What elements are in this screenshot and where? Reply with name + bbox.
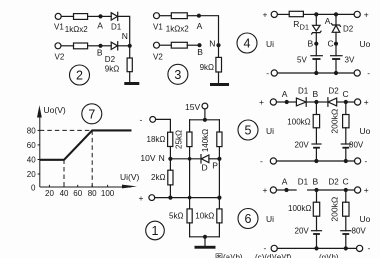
node (top rail): [203, 118, 207, 122]
battery 5V: [311, 55, 322, 57]
svg-text:D2: D2: [343, 25, 354, 34]
wire: [315, 148, 317, 161]
terminal - (bottom-right): [355, 158, 361, 164]
svg-text:A: A: [282, 177, 288, 187]
node B: [314, 42, 318, 46]
svg-text:C: C: [343, 177, 349, 187]
resistor 9kΩ: [127, 58, 132, 72]
terminal - (bottom-left): [271, 70, 277, 76]
node C: [344, 188, 348, 192]
x tick 100: [107, 185, 109, 187]
terminal + (top-right): [355, 187, 361, 193]
resistor 1kΩ (V2 branch): [171, 42, 187, 48]
circled 6: [238, 209, 258, 229]
svg-text:B: B: [313, 89, 319, 99]
wire: [61, 45, 74, 47]
caption fragments at bottom edge: [215, 253, 339, 258]
wire: [335, 32, 337, 43]
ground: [195, 246, 216, 249]
svg-text:Uo(V): Uo(V): [44, 105, 66, 115]
resistor 1kΩ (V2 branch): [74, 43, 88, 49]
resistor 100kΩ: [313, 115, 319, 128]
svg-text:A: A: [197, 21, 203, 31]
wire: [345, 234, 347, 248]
node (bottom of 80V): [344, 159, 348, 163]
y tick 80: [38, 129, 40, 131]
svg-text:-: -: [266, 68, 269, 78]
node A: [98, 14, 102, 18]
wire: [218, 223, 220, 237]
svg-text:V2: V2: [153, 53, 163, 62]
resistor 18kΩ: [168, 132, 173, 146]
svg-text:(c)(d)(e)(f): (c)(d)(e)(f): [255, 253, 292, 258]
svg-text:6: 6: [245, 212, 252, 226]
svg-text:20V: 20V: [295, 227, 310, 236]
y axis: [39, 112, 41, 187]
svg-text:+: +: [263, 185, 268, 195]
wire: [129, 46, 131, 58]
node N: [216, 43, 220, 47]
node B: [98, 44, 102, 48]
svg-text:D1: D1: [300, 23, 310, 32]
terminal V2: [154, 42, 160, 48]
svg-text:-: -: [140, 115, 143, 125]
terminal + (input bottom): [149, 195, 155, 201]
svg-text:-: -: [264, 243, 267, 253]
svg-text:1kΩx2: 1kΩx2: [166, 25, 189, 34]
svg-text:60: 60: [73, 189, 82, 198]
wire: [337, 101, 346, 103]
wire: [204, 109, 206, 120]
wire: [218, 45, 220, 57]
svg-text:B: B: [308, 39, 314, 49]
battery 80V: [341, 143, 350, 145]
resistor 140kΩ: [217, 132, 222, 147]
wire: [277, 189, 287, 191]
svg-text:5V: 5V: [297, 56, 307, 65]
wire: [88, 45, 101, 47]
terminal - (bottom-left): [270, 158, 276, 164]
svg-text:C: C: [328, 39, 334, 49]
x tick 80: [91, 185, 93, 187]
svg-text:D2: D2: [105, 55, 116, 64]
battery 3V: [331, 55, 342, 57]
zener diode D1: [313, 25, 321, 31]
svg-text:+: +: [139, 193, 144, 203]
y tick 60: [38, 144, 40, 146]
circled 7: [82, 104, 102, 124]
svg-text:B: B: [97, 48, 103, 58]
wire (+ row): [155, 197, 220, 199]
wire: [277, 101, 287, 103]
svg-text:9kΩ: 9kΩ: [105, 65, 119, 74]
terminal + (top-right): [355, 99, 361, 105]
svg-text:Uo: Uo: [360, 126, 371, 136]
node B: [314, 100, 318, 104]
svg-text:10V: 10V: [140, 153, 155, 163]
svg-text:100kΩ: 100kΩ: [288, 204, 311, 213]
wire: [218, 72, 220, 83]
wire: [218, 120, 220, 132]
node C: [344, 100, 348, 104]
resistor 25kΩ: [187, 132, 192, 147]
wire: [345, 102, 347, 115]
node A: [284, 188, 288, 192]
circled 5: [238, 120, 258, 140]
wire: [160, 15, 172, 17]
node (2k joins + row): [168, 196, 172, 200]
x tick 40: [63, 185, 65, 187]
circled 2: [70, 65, 90, 85]
resistor 2kΩ: [168, 170, 173, 185]
svg-text:A: A: [97, 20, 103, 30]
svg-text:A: A: [282, 89, 288, 99]
wire: [189, 223, 191, 237]
wire: [187, 15, 199, 17]
svg-text:140kΩ: 140kΩ: [201, 129, 210, 152]
node (top of D1): [314, 12, 318, 16]
svg-text:B: B: [313, 177, 319, 187]
wire: [315, 14, 317, 25]
node (bottom of 5V): [314, 71, 318, 75]
wire: [209, 158, 220, 160]
svg-text:80V: 80V: [349, 140, 364, 149]
wire: [335, 14, 337, 25]
node (bottom of 20V): [314, 246, 318, 250]
svg-text:2: 2: [76, 69, 83, 83]
svg-text:R: R: [293, 19, 299, 29]
svg-text:Ui: Ui: [266, 126, 274, 136]
wire: [306, 101, 316, 103]
svg-text:9kΩ: 9kΩ: [200, 63, 214, 72]
node C: [334, 42, 338, 46]
wire: [101, 15, 112, 17]
svg-text:Ui: Ui: [266, 214, 274, 224]
wire: [156, 119, 171, 132]
svg-text:100kΩ: 100kΩ: [287, 118, 310, 127]
wire: [315, 33, 317, 44]
svg-text:200kΩ: 200kΩ: [330, 197, 340, 222]
wire: [204, 237, 206, 246]
resistor 9kΩ: [216, 57, 222, 72]
svg-text:+: +: [364, 185, 369, 195]
terminal + (top-left): [270, 187, 276, 193]
terminal - (input top): [150, 117, 156, 123]
wire: [129, 72, 131, 82]
resistor R: [289, 11, 303, 16]
terminal + (top-left): [270, 99, 276, 105]
node (P joins + row): [217, 196, 221, 200]
wire: [199, 16, 219, 46]
diode D1: [296, 98, 306, 106]
wire: [218, 147, 220, 159]
resistor 100kΩ: [313, 202, 319, 216]
battery 80V: [341, 230, 351, 232]
diode D2: [111, 42, 117, 49]
svg-text:-: -: [367, 68, 370, 78]
ground: [210, 83, 229, 86]
svg-text:Uo: Uo: [360, 39, 371, 49]
svg-text:20V: 20V: [295, 140, 310, 149]
terminal V1: [154, 13, 160, 19]
wire: [345, 216, 347, 231]
y tick 20: [38, 173, 40, 175]
wire: [61, 15, 73, 17]
wire: [218, 198, 220, 209]
svg-text:+: +: [364, 97, 369, 107]
svg-text:2kΩ: 2kΩ: [151, 173, 165, 182]
y tick 40: [38, 159, 40, 161]
terminal - (bottom-right): [354, 70, 360, 76]
wire: [277, 13, 289, 15]
dashed line (vertical at 80): [91, 130, 93, 187]
resistor 200kΩ: [343, 202, 349, 216]
svg-text:-: -: [365, 156, 368, 166]
wire (top rail): [190, 119, 220, 121]
svg-text:1: 1: [152, 224, 159, 238]
wire (bottom rail): [277, 247, 356, 249]
node (top of D2): [334, 12, 338, 16]
x tick 60: [77, 185, 79, 187]
svg-text:+: +: [259, 97, 264, 107]
diode D2 (points left): [327, 98, 329, 107]
svg-text:-: -: [368, 243, 371, 253]
wire (to open D1 position): [287, 189, 297, 191]
node N: [128, 44, 132, 48]
node N: [168, 157, 172, 161]
node (25k/5k crosses + row): [188, 196, 192, 200]
wire: [118, 45, 130, 47]
wire: [316, 216, 318, 231]
node (bottom of 3V): [334, 71, 338, 75]
svg-text:V2: V2: [55, 53, 65, 62]
node (ground junction): [203, 235, 207, 239]
svg-text:5: 5: [245, 124, 252, 138]
terminal V2: [55, 43, 61, 49]
terminal - (bottom-left): [271, 245, 277, 251]
svg-text:4: 4: [244, 37, 251, 51]
wire (from open D1 position): [308, 189, 317, 191]
wire: [169, 147, 171, 159]
svg-text:40: 40: [60, 189, 69, 198]
wire: [88, 15, 101, 17]
svg-text:10kΩ: 10kΩ: [195, 212, 214, 221]
svg-text:V1: V1: [54, 22, 64, 31]
wire: [345, 128, 347, 144]
node P: [217, 157, 221, 161]
node (25k crosses N row): [188, 157, 192, 161]
wire: [345, 148, 347, 161]
terminal + (top-right): [354, 11, 360, 17]
svg-text:P: P: [212, 161, 218, 171]
svg-text:D1: D1: [298, 87, 309, 96]
wire: [169, 159, 171, 170]
svg-text:7: 7: [88, 108, 95, 122]
node A: [197, 14, 201, 18]
diode D: [200, 155, 202, 163]
wire: [335, 59, 337, 73]
wire (P down): [218, 159, 220, 198]
wire: [335, 44, 337, 56]
wire: [315, 102, 317, 115]
wire (bottom rail): [277, 160, 355, 162]
wire: [346, 101, 355, 103]
wire: [316, 234, 318, 248]
svg-text:200kΩ: 200kΩ: [330, 109, 340, 134]
svg-text:15V: 15V: [185, 102, 200, 112]
node (bottom of 80V): [344, 246, 348, 250]
svg-text:D2: D2: [329, 87, 340, 96]
svg-text:3: 3: [174, 68, 181, 82]
wire: [316, 13, 336, 15]
zener diode D2: [332, 24, 341, 27]
wire: [303, 13, 316, 15]
wire: [189, 147, 191, 198]
wire: [101, 45, 112, 47]
svg-text:25kΩ: 25kΩ: [174, 130, 183, 149]
dashed line (vertical at 40): [63, 160, 65, 188]
circled 3: [168, 64, 188, 84]
svg-text:N: N: [122, 31, 128, 41]
svg-text:1kΩx2: 1kΩx2: [65, 25, 88, 34]
wire: [118, 16, 130, 45]
node B: [197, 43, 201, 47]
node B: [314, 188, 318, 192]
wire: [189, 120, 191, 132]
resistor 1kΩ (V1 branch): [171, 13, 187, 19]
svg-text:18kΩ: 18kΩ: [147, 135, 166, 144]
svg-text:40: 40: [27, 156, 36, 165]
wire: [316, 190, 318, 202]
wire: [345, 190, 347, 202]
wire: [287, 101, 297, 103]
wire: [316, 101, 328, 103]
dashed line (horizontal at 80): [40, 129, 92, 131]
x tick 20: [48, 185, 50, 187]
svg-text:D2: D2: [329, 178, 340, 187]
svg-text:A: A: [325, 16, 331, 26]
svg-text:N: N: [159, 153, 165, 163]
svg-text:图(a)(b): 图(a)(b): [215, 253, 243, 258]
wire: [160, 44, 172, 46]
svg-text:60: 60: [27, 141, 36, 150]
battery 20V: [312, 143, 321, 145]
svg-text:80: 80: [88, 189, 97, 198]
svg-text:-: -: [260, 156, 263, 166]
svg-text:Ui: Ui: [266, 39, 274, 49]
svg-text:D1: D1: [111, 23, 122, 32]
svg-text:20: 20: [27, 170, 36, 179]
svg-text:C: C: [343, 89, 349, 99]
svg-text:Uo: Uo: [360, 214, 371, 224]
circled 4: [237, 33, 257, 53]
wire: [315, 59, 317, 73]
terminal V1: [55, 13, 61, 19]
svg-text:80V: 80V: [352, 227, 367, 236]
svg-text:N: N: [209, 39, 215, 49]
terminal 15V: [202, 103, 208, 109]
wire: [189, 198, 191, 209]
wire: [187, 44, 199, 46]
battery 20V: [312, 230, 322, 232]
wire: [336, 13, 354, 15]
wire: [169, 185, 171, 198]
wire (bottom rail): [277, 72, 354, 74]
svg-text:D1: D1: [298, 178, 309, 187]
wire: [315, 128, 317, 144]
svg-text:5kΩ: 5kΩ: [169, 212, 183, 221]
resistor 5kΩ: [187, 209, 192, 223]
x axis: [40, 186, 131, 188]
svg-text:3V: 3V: [345, 56, 355, 65]
svg-text:(g)(h): (g)(h): [319, 253, 339, 258]
svg-text:D: D: [202, 163, 208, 173]
svg-text:V1: V1: [153, 23, 163, 32]
wire (shorted D2 position): [317, 189, 346, 191]
svg-text:100: 100: [101, 189, 115, 198]
svg-text:20: 20: [45, 189, 54, 198]
svg-text:80: 80: [27, 126, 36, 135]
svg-text:Ui(V): Ui(V): [120, 172, 140, 182]
diode D1: [111, 13, 117, 20]
resistor 10kΩ: [217, 209, 222, 223]
resistor 1kΩ (V1 branch): [74, 14, 88, 20]
wire: [346, 189, 355, 191]
terminal - (bottom-right): [357, 245, 363, 251]
svg-text:B: B: [197, 47, 203, 57]
wire: [315, 44, 317, 56]
node (bottom of 20V): [314, 159, 318, 163]
ground: [124, 82, 139, 85]
circled 1: [146, 221, 165, 240]
wire (bottom): [190, 236, 220, 238]
svg-text:+: +: [263, 10, 268, 20]
svg-text:+: +: [364, 10, 369, 20]
transfer curve: [40, 130, 132, 159]
wire (N row): [170, 158, 201, 160]
terminal + (top-left): [271, 11, 277, 17]
node A: [285, 100, 289, 104]
svg-text:0: 0: [31, 184, 36, 193]
resistor 200kΩ: [343, 115, 349, 128]
